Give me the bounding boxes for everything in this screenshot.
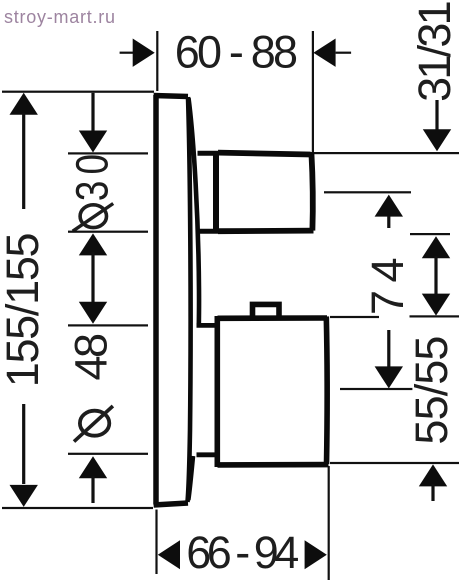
wire: knob2 top line right segment B	[410, 315, 459, 317]
wire: 155/155 upper tail	[22, 113, 25, 209]
node arrow left-pointing (60-88 right)	[313, 39, 335, 67]
svg-text:155/155: 155/155	[0, 233, 48, 387]
node arrow up (Ø30 bottom, outside)	[79, 233, 107, 255]
knob2 tab (temperature stop button)	[253, 304, 280, 318]
node arrow down (Ø48 top, outside)	[79, 302, 107, 324]
plate front inner contour	[188, 97, 191, 502]
sleeve1 bottom edge	[197, 229, 218, 234]
plate front outer dome contour	[189, 98, 200, 327]
svg-text:66 - 94: 66 - 94	[186, 527, 298, 578]
wire: top dim right extension line	[312, 31, 314, 152]
knob1 top edge	[218, 153, 311, 155]
wire: 55/55 bottom tail	[431, 484, 434, 501]
wire: shared tail between Ø30 and Ø48	[91, 252, 94, 304]
node label Ø30 (rotated)	[80, 205, 106, 228]
wire: 155/155 lower tail	[22, 404, 25, 484]
node arrow up (55/55 bottom, outside)	[419, 464, 447, 486]
thermostat knob (upper)	[218, 153, 314, 232]
svg-text:55/55: 55/55	[406, 336, 457, 444]
wire: knob2 centerline extension	[340, 388, 412, 390]
node arrow down (74 bottom, inside)	[375, 366, 403, 388]
wire: 31/31 tail	[435, 100, 438, 130]
knob2 top edge	[218, 315, 328, 321]
knob2 bottom edge	[218, 462, 329, 468]
wire: 74 lower tail	[387, 330, 390, 367]
sleeve1 top edge	[198, 151, 219, 156]
node arrow right-pointing (66-94 right, inside)	[305, 540, 327, 569]
plate bottom edge	[154, 503, 188, 505]
node label Ø 48 (rotated)	[80, 411, 109, 436]
wire: knob2 bottom line extended right	[330, 462, 459, 464]
knob2 left edge	[215, 316, 221, 467]
wire: sleeve2 top extension line	[68, 324, 148, 326]
node arrow down (155/155 bottom)	[10, 485, 38, 507]
svg-text:48: 48	[66, 334, 117, 381]
plate top edge	[154, 96, 188, 97]
wire: top dimension line right tail	[336, 52, 352, 54]
knob1 bottom edge	[218, 228, 314, 234]
wire: knob2 top line right segment A	[330, 316, 379, 318]
wire: plate top extension line to left edge	[2, 91, 154, 93]
wire: top dim left extension line	[156, 31, 158, 91]
wire: chain tail from plate top line	[91, 93, 94, 131]
wire: knob1 top line extended right	[310, 152, 459, 154]
wire: 74 upper tail	[387, 216, 390, 228]
knob2 right edge	[323, 317, 329, 465]
node arrow down (31/31 at knob1 top)	[423, 129, 451, 151]
wire: gap chain connector	[434, 256, 437, 294]
wire: sleeve2 bottom extension line	[68, 453, 148, 455]
svg-text:7 4: 7 4	[362, 259, 413, 316]
node arrow left-pointing (66-94 left, inside)	[158, 540, 180, 569]
node arrow up (gap 31 top, inside)	[422, 236, 450, 258]
wire: bottom dim right extension line	[328, 466, 330, 580]
sleeve (upper, Ø30)	[197, 153, 218, 232]
knob1 right edge	[311, 153, 312, 231]
wire: top dimension line left tail	[120, 52, 134, 54]
plate dome lower return	[188, 456, 193, 500]
sleeve2 top edge	[197, 323, 219, 328]
node arrow up (155/155 top)	[10, 93, 38, 115]
sleeve1 front edge	[213, 153, 219, 232]
sleeve2 bottom edge	[197, 452, 219, 457]
escutcheon plate (side profile)	[154, 95, 199, 505]
node arrow right-pointing (60-88 left)	[133, 39, 155, 67]
svg-text:31/31: 31/31	[409, 2, 459, 101]
node arrow up (74 top, inside)	[375, 195, 403, 217]
node arrow down (Ø30 top, outside)	[79, 131, 107, 153]
svg-text:30: 30	[67, 148, 117, 201]
wire: plate bottom extension line to left edge	[2, 507, 153, 509]
wire: bottom dim left extension line	[155, 510, 157, 575]
wire: knob1 bottom short line right	[410, 233, 450, 235]
volume knob (lower)	[217, 304, 328, 467]
svg-text:60 - 88: 60 - 88	[175, 27, 297, 78]
node arrow down (gap 31 bottom, inside)	[422, 294, 450, 316]
svg-text:stroy-mart.ru: stroy-mart.ru	[4, 7, 116, 27]
wire: sleeve1 bottom extension line	[68, 231, 148, 233]
wire: sleeve1 top extension line	[68, 152, 148, 154]
node arrow up (Ø48 bottom, outside)	[79, 456, 107, 478]
wire: knob1 centerline extension	[324, 191, 411, 193]
plate back edge	[153, 95, 159, 505]
sleeve (lower, Ø48)	[197, 325, 219, 454]
wire: tail from Ø48 arrow to plate bottom line	[91, 476, 94, 503]
